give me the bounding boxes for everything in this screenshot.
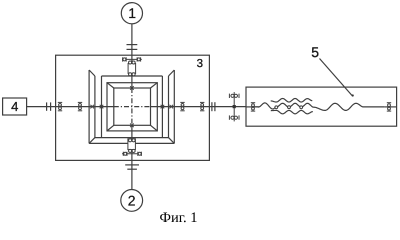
- box 5 (working organ): [246, 87, 397, 126]
- coupling on shaft 2: [125, 165, 139, 169]
- bearing in box 5 right: [387, 103, 391, 111]
- bearing in box 5 left: [251, 103, 255, 111]
- bottom bearing unit on vertical shaft: [122, 139, 142, 156]
- X joints on horizontal shaft: [90, 105, 173, 109]
- svg-text:2: 2: [128, 192, 136, 208]
- bearing on horizontal shaft (right inner): [180, 102, 184, 110]
- top bearing unit on vertical shaft: [122, 57, 142, 76]
- wavy shaft (main): [253, 103, 384, 111]
- horizontal shaft through gimbals: [27, 106, 114, 108]
- wire vertical shaft from 1 to box 3: [131, 24, 133, 56]
- upper spring line: [271, 99, 313, 103]
- housing box 3: [56, 55, 210, 160]
- svg-text:1: 1: [128, 5, 136, 21]
- svg-text:Фиг. 1: Фиг. 1: [159, 210, 197, 226]
- support post with bearings: [229, 92, 239, 121]
- X joints on vertical shaft: [130, 86, 134, 127]
- wire shaft to circle 2: [131, 160, 133, 190]
- shaft stub in box 5 right: [384, 106, 396, 108]
- svg-text:3: 3: [197, 58, 203, 70]
- wire shaft down: [131, 125, 133, 160]
- bearing on horizontal shaft (left outer): [58, 102, 62, 110]
- bearing on horizontal shaft (right outer): [200, 102, 204, 110]
- lower spring line: [271, 110, 313, 113]
- leader line 5: [320, 59, 354, 97]
- motor box 4: [3, 98, 27, 115]
- centerline inside platform vertical: [131, 88, 133, 125]
- inner platform frame (picture frame): [107, 83, 157, 131]
- shaft stub in box 5 left: [246, 106, 259, 108]
- centerline inside platform: [114, 106, 151, 108]
- circle 2 (motor, pos. 2): [121, 190, 143, 212]
- frame A (outer gimbal side members): [89, 70, 174, 143]
- coupling on shaft 4: [47, 102, 51, 110]
- wire shaft right: [151, 106, 248, 108]
- frame B (middle gimbal rectangle): [95, 76, 169, 138]
- coupling on shaft 1: [127, 45, 138, 50]
- rollers on spring: [275, 106, 303, 109]
- circle 1 (drive motor, pos. 1): [121, 3, 142, 24]
- bearing on horizontal shaft (left inner): [78, 102, 82, 110]
- svg-text:4: 4: [11, 99, 18, 114]
- vertical shaft inside box: [131, 55, 133, 88]
- coupling right of box 3: [212, 102, 215, 111]
- svg-text:5: 5: [311, 44, 319, 60]
